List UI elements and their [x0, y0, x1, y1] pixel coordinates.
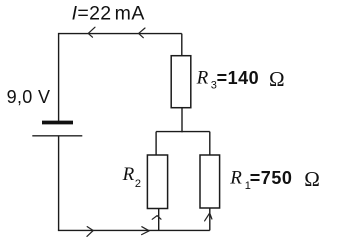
svg-text:=140: =140 [217, 68, 260, 88]
svg-text:Ω: Ω [304, 167, 320, 191]
svg-text:R: R [196, 68, 209, 89]
svg-text:R: R [122, 164, 135, 185]
svg-text:R: R [229, 168, 242, 189]
svg-text:=750: =750 [250, 168, 293, 188]
svg-text:mA: mA [115, 3, 145, 25]
svg-text:2: 2 [135, 178, 141, 190]
svg-text:9,0 V: 9,0 V [7, 87, 51, 107]
svg-text:Ω: Ω [269, 67, 285, 91]
svg-text:I=22: I=22 [72, 3, 112, 25]
